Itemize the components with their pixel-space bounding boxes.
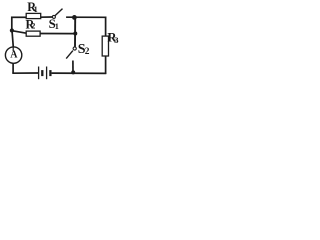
svg-text:A: A (10, 50, 18, 61)
svg-text:3: 3 (114, 35, 118, 45)
svg-text:1: 1 (34, 5, 38, 14)
svg-text:2: 2 (85, 47, 90, 57)
svg-text:1: 1 (55, 22, 59, 31)
svg-text:2: 2 (31, 22, 35, 31)
